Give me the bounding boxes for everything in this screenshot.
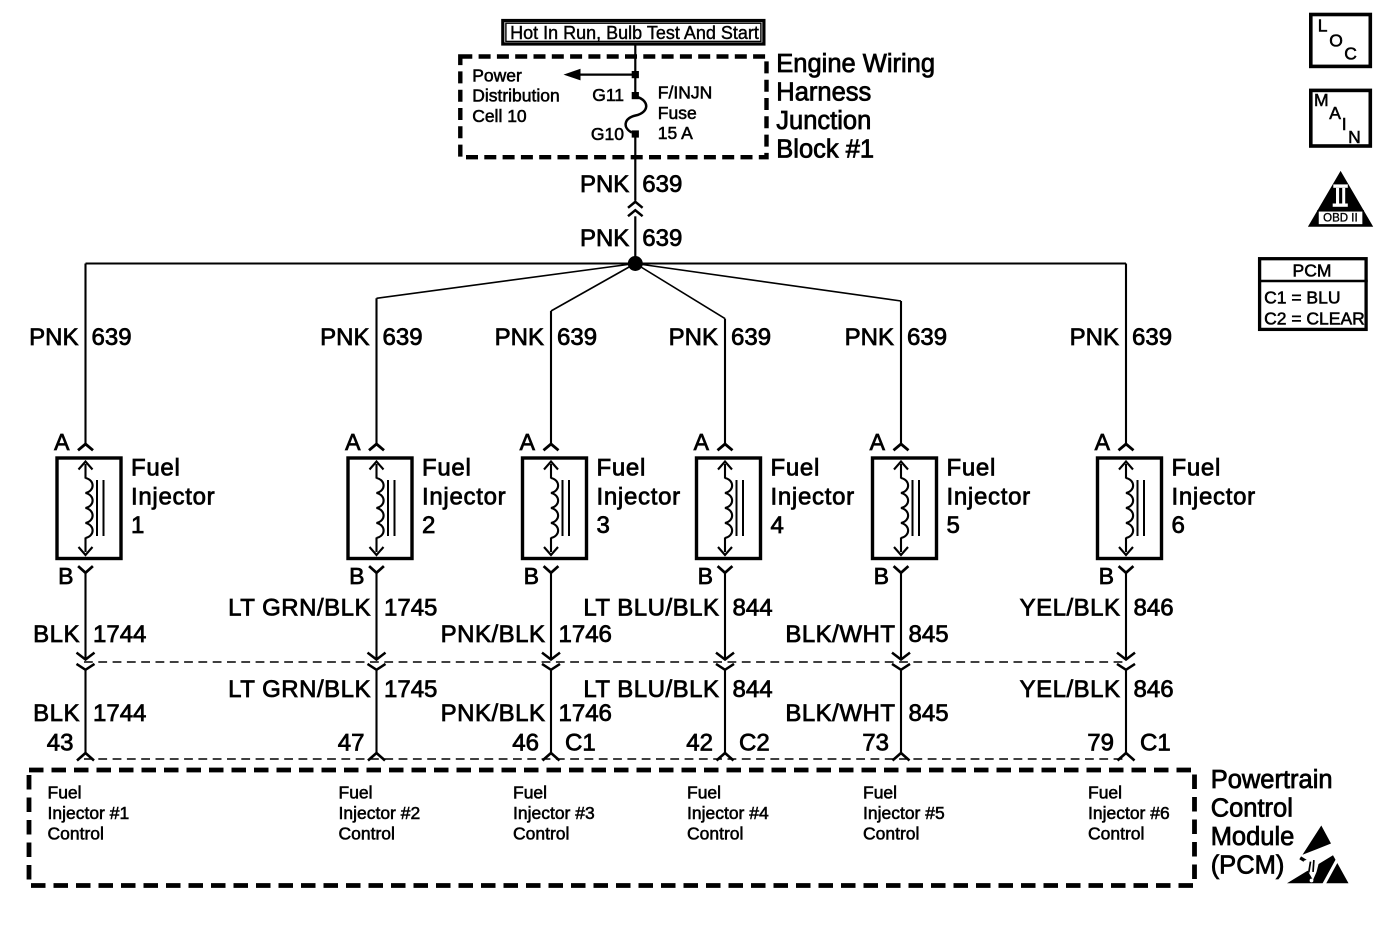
svg-text:B: B: [1099, 563, 1114, 589]
harness connector pass-through, injector 3 circuit: [542, 664, 560, 753]
pin B of injector 2: [349, 563, 384, 589]
svg-text:47: 47: [338, 729, 365, 756]
power feed box "Hot In Run, Bulb Test And Start": [503, 21, 764, 45]
label Fuel Injector #3 Control: [513, 782, 595, 843]
svg-text:Injector #5: Injector #5: [863, 803, 945, 823]
splice node S101: [628, 256, 643, 271]
svg-text:Fuel: Fuel: [422, 454, 472, 481]
svg-text:B: B: [874, 563, 889, 589]
svg-text:C1: C1: [1140, 729, 1171, 756]
svg-text:1744: 1744: [93, 621, 146, 648]
wire YEL/BLK 846 from injector 6 to harness connector: [1117, 573, 1135, 660]
svg-text:PNK: PNK: [580, 171, 629, 198]
svg-text:LT BLU/BLK: LT BLU/BLK: [583, 595, 719, 622]
PCM pin 43: [47, 729, 94, 760]
ESD sensitive device symbol: [1287, 826, 1349, 886]
MAIN reference box: [1311, 90, 1371, 147]
svg-text:LT BLU/BLK: LT BLU/BLK: [583, 676, 719, 703]
wire label BLK/WHT 845 (upper): [785, 621, 948, 648]
svg-text:42: 42: [686, 729, 713, 756]
wire PNK 639 to injector 4: [635, 264, 725, 445]
wire label PNK 639 (injector 3): [495, 324, 597, 351]
svg-text:Fuel: Fuel: [48, 782, 82, 802]
pin A of injector 1: [54, 429, 93, 455]
svg-text:A: A: [694, 429, 710, 455]
svg-text:Module: Module: [1211, 823, 1295, 851]
wire PNK 639 to injector 3: [551, 264, 635, 445]
label Fuel Injector #4 Control: [687, 782, 769, 843]
svg-text:L: L: [1318, 16, 1328, 36]
fuel injector 2 (solenoid): [348, 458, 412, 559]
svg-text:Injector: Injector: [597, 484, 681, 511]
svg-text:Fuel: Fuel: [339, 782, 373, 802]
wire PNK 639 to injector 2: [377, 264, 636, 445]
wire label PNK 639 (below connector): [580, 225, 682, 252]
svg-text:PNK: PNK: [669, 324, 718, 351]
svg-text:LT GRN/BLK: LT GRN/BLK: [228, 676, 371, 703]
svg-text:A: A: [1329, 103, 1341, 123]
wire from connector to splice: [634, 216, 636, 263]
svg-text:G10: G10: [591, 124, 624, 144]
svg-text:BLK/WHT: BLK/WHT: [785, 621, 895, 648]
svg-text:1744: 1744: [93, 700, 146, 727]
label Engine Wiring Harness Junction Block #1: [776, 50, 935, 163]
wire label LT GRN/BLK 1745 (upper): [228, 595, 437, 622]
wire label PNK 639 (above connector): [580, 171, 682, 198]
label Fuel Injector 3: [597, 454, 681, 539]
svg-text:1745: 1745: [384, 676, 437, 703]
svg-text:846: 846: [1134, 676, 1174, 703]
svg-text:Engine Wiring: Engine Wiring: [776, 50, 935, 78]
PCM connector boundary (thin dashed line): [84, 758, 1127, 760]
svg-text:N: N: [1348, 127, 1361, 147]
svg-text:PCM: PCM: [1293, 260, 1332, 280]
svg-text:B: B: [524, 563, 539, 589]
svg-text:Fuel: Fuel: [947, 454, 997, 481]
svg-text:PNK/BLK: PNK/BLK: [441, 621, 546, 648]
node G10: [632, 130, 639, 137]
wire LT BLU/BLK 844 from injector 4 to harness connector: [716, 573, 734, 660]
svg-text:C2: C2: [739, 729, 770, 756]
svg-text:Fuel: Fuel: [1088, 782, 1122, 802]
svg-text:73: 73: [862, 729, 889, 756]
fuel injector 1 (solenoid): [57, 458, 121, 559]
svg-text:Control: Control: [1211, 795, 1293, 823]
svg-text:Fuel: Fuel: [1172, 454, 1222, 481]
harness connector pass-through, injector 2 circuit: [368, 664, 386, 753]
svg-text:79: 79: [1087, 729, 1114, 756]
fuel injector 3 (solenoid): [523, 458, 587, 559]
label Fuel Injector 6: [1172, 454, 1256, 539]
svg-text:C1: C1: [565, 729, 596, 756]
wire PNK 639 to injector 5: [635, 264, 901, 445]
svg-text:5: 5: [947, 512, 961, 539]
svg-text:Injector #2: Injector #2: [339, 803, 421, 823]
svg-text:Distribution: Distribution: [472, 86, 560, 106]
svg-text:Control: Control: [513, 823, 569, 843]
wire label BLK 1744 (lower): [33, 700, 146, 727]
arrow to Power Distribution Cell 10: [564, 69, 639, 81]
svg-text:B: B: [349, 563, 364, 589]
wire label PNK 639 (injector 4): [669, 324, 771, 351]
svg-text:M: M: [1314, 90, 1329, 110]
bus wire left to injector 1: [86, 262, 636, 264]
svg-text:Control: Control: [48, 823, 104, 843]
pin B of injector 3: [524, 563, 559, 589]
svg-text:Fuel: Fuel: [131, 454, 181, 481]
svg-text:PNK: PNK: [495, 324, 544, 351]
svg-text:A: A: [1095, 429, 1111, 455]
wire BLK 1744 from injector 1 to harness connector: [77, 573, 95, 660]
Powertrain Control Module boundary (dashed): [29, 770, 1195, 886]
svg-text:Fuel: Fuel: [687, 782, 721, 802]
svg-text:1746: 1746: [559, 700, 612, 727]
wire label BLK 1744 (upper): [33, 621, 146, 648]
label Fuel Injector 5: [947, 454, 1031, 539]
wire from power feed into junction block: [634, 44, 636, 96]
wire label LT BLU/BLK 844 (upper): [583, 595, 772, 622]
svg-text:1745: 1745: [384, 595, 437, 622]
fuel injector 5 (solenoid): [873, 458, 937, 559]
wire BLK/WHT 845 from injector 5 to harness connector: [892, 573, 910, 660]
svg-text:O: O: [1329, 31, 1343, 51]
inline connector (double chevron): [628, 202, 643, 216]
svg-text:Injector #6: Injector #6: [1088, 803, 1170, 823]
svg-text:Block #1: Block #1: [776, 135, 874, 163]
svg-text:Injector: Injector: [1172, 484, 1256, 511]
svg-text:Junction: Junction: [776, 107, 871, 135]
wire PNK/BLK 1746 from injector 3 to harness connector: [542, 573, 560, 660]
svg-text:B: B: [698, 563, 713, 589]
node G11: [632, 92, 639, 99]
svg-text:Control: Control: [339, 823, 395, 843]
svg-text:Injector: Injector: [131, 484, 215, 511]
LOC reference box: [1311, 15, 1371, 67]
pin B of injector 6: [1099, 563, 1134, 589]
svg-text:639: 639: [557, 324, 597, 351]
svg-text:F/INJN: F/INJN: [658, 82, 712, 102]
svg-text:3: 3: [597, 512, 611, 539]
svg-text:(PCM): (PCM): [1211, 852, 1285, 880]
pin A of injector 4: [694, 429, 733, 455]
svg-text:Injector: Injector: [422, 484, 506, 511]
fuse F/INJN 15 A: [626, 97, 647, 133]
svg-text:A: A: [520, 429, 536, 455]
bus wire right to injector 6: [635, 262, 1126, 264]
svg-text:844: 844: [733, 676, 773, 703]
PCM pin 47: [338, 729, 385, 760]
svg-text:G11: G11: [592, 85, 624, 105]
wire PNK 639 to injector 1: [84, 264, 86, 445]
harness connector pass-through, injector 1 circuit: [77, 664, 95, 753]
wire G10 down to inline connector: [634, 134, 636, 201]
junction block boundary (dashed): [460, 57, 766, 158]
label Fuel Injector #5 Control: [863, 782, 945, 843]
svg-text:1: 1: [131, 512, 145, 539]
svg-text:639: 639: [383, 324, 423, 351]
svg-text:YEL/BLK: YEL/BLK: [1020, 595, 1121, 622]
PCM pin 46: [512, 729, 595, 760]
svg-text:Harness: Harness: [776, 79, 871, 107]
wire label YEL/BLK 846 (lower): [1020, 676, 1174, 703]
PCM pin 42: [686, 729, 769, 760]
svg-text:PNK: PNK: [29, 324, 78, 351]
wire label PNK 639 (injector 5): [845, 324, 947, 351]
harness connector pass-through, injector 6 circuit: [1117, 664, 1135, 753]
svg-text:639: 639: [731, 324, 771, 351]
fuel injector 4 (solenoid): [697, 458, 761, 559]
svg-text:639: 639: [642, 171, 682, 198]
svg-text:846: 846: [1134, 595, 1174, 622]
harness connector pass-through, injector 5 circuit: [892, 664, 910, 753]
wire label PNK 639 (injector 6): [1070, 324, 1172, 351]
svg-text:B: B: [58, 563, 73, 589]
label Power Distribution Cell 10: [472, 65, 560, 126]
PCM pin 73: [862, 729, 909, 760]
wire label BLK/WHT 845 (lower): [785, 700, 948, 727]
pin B of injector 5: [874, 563, 909, 589]
svg-text:BLK: BLK: [33, 621, 80, 648]
svg-text:639: 639: [92, 324, 132, 351]
wire label PNK 639 (injector 2): [320, 324, 422, 351]
pin B of injector 4: [698, 563, 733, 589]
pin A of injector 2: [345, 429, 384, 455]
pin A of injector 3: [520, 429, 559, 455]
svg-text:Injector: Injector: [771, 484, 855, 511]
svg-text:I: I: [1342, 114, 1347, 134]
svg-text:C2 = CLEAR: C2 = CLEAR: [1264, 308, 1365, 328]
svg-text:Fuel: Fuel: [771, 454, 821, 481]
svg-text:A: A: [54, 429, 70, 455]
svg-text:BLK: BLK: [33, 700, 80, 727]
label Fuel Injector 2: [422, 454, 506, 539]
svg-text:Control: Control: [687, 823, 743, 843]
label Fuel Injector 1: [131, 454, 215, 539]
svg-text:845: 845: [909, 621, 949, 648]
svg-text:639: 639: [1132, 324, 1172, 351]
svg-text:639: 639: [642, 225, 682, 252]
svg-text:2: 2: [422, 512, 436, 539]
label Fuel Injector #6 Control: [1088, 782, 1170, 843]
pin A of injector 5: [870, 429, 909, 455]
wire LT GRN/BLK 1745 from injector 2 to harness connector: [368, 573, 386, 660]
svg-text:Fuel: Fuel: [513, 782, 547, 802]
svg-text:Hot In Run, Bulb Test And Star: Hot In Run, Bulb Test And Start: [510, 23, 759, 43]
svg-text:845: 845: [909, 700, 949, 727]
svg-text:PNK: PNK: [580, 225, 629, 252]
svg-text:46: 46: [512, 729, 539, 756]
svg-text:PNK: PNK: [320, 324, 369, 351]
wire label LT GRN/BLK 1745 (lower): [228, 676, 437, 703]
svg-text:Control: Control: [863, 823, 919, 843]
PCM connector legend box: [1258, 259, 1368, 330]
PCM pin 79: [1087, 729, 1170, 760]
svg-text:OBD II: OBD II: [1323, 212, 1358, 224]
svg-text:Injector #1: Injector #1: [48, 803, 130, 823]
pin A of injector 6: [1095, 429, 1134, 455]
fuel injector 6 (solenoid): [1098, 458, 1162, 559]
svg-text:A: A: [345, 429, 361, 455]
OBD II symbol: [1308, 171, 1373, 227]
svg-text:Control: Control: [1088, 823, 1144, 843]
svg-text:Power: Power: [472, 65, 522, 85]
svg-text:Fuel: Fuel: [597, 454, 647, 481]
svg-text:6: 6: [1172, 512, 1186, 539]
svg-text:844: 844: [733, 595, 773, 622]
svg-text:Injector: Injector: [947, 484, 1031, 511]
svg-text:15 A: 15 A: [658, 123, 693, 143]
svg-text:Injector #4: Injector #4: [687, 803, 769, 823]
svg-text:A: A: [870, 429, 886, 455]
svg-text:Cell 10: Cell 10: [472, 106, 527, 126]
label Fuel Injector #1 Control: [48, 782, 130, 843]
harness connector pass-through, injector 4 circuit: [716, 664, 734, 753]
label Fuel Injector #2 Control: [339, 782, 421, 843]
svg-text:C: C: [1344, 43, 1357, 63]
svg-text:43: 43: [47, 729, 74, 756]
label Fuel Injector 4: [771, 454, 855, 539]
svg-text:1746: 1746: [559, 621, 612, 648]
svg-text:Fuel: Fuel: [863, 782, 897, 802]
pin B of injector 1: [58, 563, 93, 589]
svg-text:YEL/BLK: YEL/BLK: [1020, 676, 1121, 703]
wire label YEL/BLK 846 (upper): [1020, 595, 1174, 622]
svg-text:4: 4: [771, 512, 785, 539]
wire PNK 639 to injector 6: [1125, 264, 1127, 445]
svg-text:LT GRN/BLK: LT GRN/BLK: [228, 595, 371, 622]
svg-text:Injector #3: Injector #3: [513, 803, 595, 823]
harness connector boundary (thin dashed line): [84, 661, 1127, 663]
wire label LT BLU/BLK 844 (lower): [583, 676, 772, 703]
svg-text:PNK: PNK: [1070, 324, 1119, 351]
svg-text:PNK/BLK: PNK/BLK: [441, 700, 546, 727]
svg-text:Powertrain: Powertrain: [1211, 766, 1333, 794]
label Powertrain Control Module (PCM): [1211, 766, 1333, 880]
wire label PNK/BLK 1746 (lower): [441, 700, 612, 727]
svg-text:BLK/WHT: BLK/WHT: [785, 700, 895, 727]
svg-text:639: 639: [907, 324, 947, 351]
wire label PNK/BLK 1746 (upper): [441, 621, 612, 648]
svg-text:C1 = BLU: C1 = BLU: [1264, 288, 1340, 308]
svg-text:PNK: PNK: [845, 324, 894, 351]
svg-text:Fuse: Fuse: [658, 103, 697, 123]
wire label PNK 639 (injector 1): [29, 324, 131, 351]
